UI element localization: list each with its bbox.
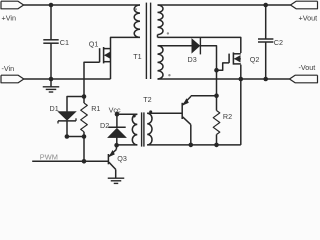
port +Vin connector tag xyxy=(1,1,24,22)
transistor Q4 PNP xyxy=(182,96,191,144)
node junction dot C1 top xyxy=(49,3,54,8)
wire D1-R1 bottom link xyxy=(67,136,84,138)
diode D1 zener xyxy=(50,104,77,123)
node junction dot C2 bottom xyxy=(263,77,268,82)
wire Q3 emitter up xyxy=(115,145,117,149)
node PWM net label xyxy=(40,153,58,162)
ground under Q3 xyxy=(108,178,125,183)
svg-text:Q3: Q3 xyxy=(117,154,127,163)
wire top-right rail (T1 secondary to +Vout) xyxy=(158,4,291,6)
wire Q1 gate lead xyxy=(84,62,100,96)
wire top-left rail (+Vin to T1 primary) xyxy=(24,4,140,6)
node junction dot R2 top xyxy=(214,93,219,98)
svg-text:+Vout: +Vout xyxy=(299,13,318,22)
wire T2 secondary bottom rail xyxy=(147,144,241,146)
svg-text:R1: R1 xyxy=(91,104,100,113)
wire left bottom rail (-Vin) xyxy=(24,78,111,80)
node junction dot Q4 collector-rail xyxy=(189,143,194,148)
port -Vin connector tag xyxy=(1,64,24,83)
wire D2 cathode to Vcc xyxy=(116,114,118,127)
transformer T2 core xyxy=(142,112,144,146)
svg-text:D3: D3 xyxy=(188,55,197,64)
wire Q2 source to -Vout rail xyxy=(240,65,242,79)
svg-text:-Vout: -Vout xyxy=(299,63,316,72)
wire Vcc to T2 primary top xyxy=(117,113,137,115)
ground under C1 xyxy=(43,79,60,92)
node junction dot Q2 gate branch xyxy=(214,68,219,73)
transformer T1 secondary-2 winding xyxy=(158,46,164,79)
wire C2 bottom lead xyxy=(265,42,267,79)
svg-text:Q1: Q1 xyxy=(89,39,99,48)
node junction dot Q1 gate node xyxy=(82,94,87,99)
node T1 primary phase dot xyxy=(135,8,137,10)
node T2 secondary phase dot xyxy=(149,110,152,113)
port -Vout connector tag xyxy=(290,63,318,83)
node junction dot Q2 source xyxy=(239,77,244,82)
wire T2 primary bottom to Q3 node xyxy=(117,144,138,146)
wire C1 top lead xyxy=(50,5,52,40)
wire D2 anode lead xyxy=(116,138,118,146)
transformer T2 secondary winding xyxy=(147,113,152,145)
wire D1 cathode lead xyxy=(66,121,68,137)
svg-text:Vcc: Vcc xyxy=(109,105,121,114)
node junction dot C1 bottom xyxy=(49,77,54,82)
node junction dot Q3-D2-T2 xyxy=(114,143,119,148)
transformer T1 core xyxy=(146,3,150,79)
svg-text:T2: T2 xyxy=(143,95,151,104)
svg-text:+Vin: +Vin xyxy=(2,13,16,22)
transformer T2 label xyxy=(143,95,151,104)
wire T1 sec-1 bottom to Q2 drain xyxy=(158,37,241,53)
svg-text:T1: T1 xyxy=(133,52,141,61)
transformer T1 primary winding xyxy=(134,5,140,37)
wire right bottom rail (-Vout) xyxy=(158,78,290,80)
wire Q4 emitter to gate-drive node xyxy=(191,95,217,98)
wire T1 sec-2 top to D3 anode xyxy=(158,45,192,47)
svg-text:R2: R2 xyxy=(223,112,232,121)
port +Vout connector tag xyxy=(291,1,318,22)
capacitor C1 xyxy=(43,38,69,47)
svg-text:PWM: PWM xyxy=(40,153,58,162)
wire T2 secondary top to Q4 base xyxy=(147,112,182,114)
transistor Q2 N-MOSFET xyxy=(229,52,259,64)
node junction dot R1 bottom xyxy=(82,134,87,139)
diode D2 xyxy=(100,121,126,138)
node T2 primary phase dot xyxy=(133,115,136,118)
node junction dot R2 bottom xyxy=(214,143,219,148)
wire gate node to D1 xyxy=(67,97,84,112)
node T1 secondary-1 phase dot xyxy=(167,32,169,34)
node T1 secondary-2 phase dot xyxy=(168,74,170,76)
wire Q2 gate lead xyxy=(217,63,230,70)
svg-text:C1: C1 xyxy=(60,38,69,47)
diode D3 xyxy=(188,38,201,65)
wire C2 top lead xyxy=(265,5,267,39)
node junction dot D1 bottom xyxy=(65,134,70,139)
transistor Q3 PNP xyxy=(108,149,126,178)
transformer T2 primary winding xyxy=(132,114,137,145)
resistor R1 xyxy=(81,97,101,137)
wire PWM line xyxy=(32,160,108,162)
wire C1 bottom lead xyxy=(50,43,52,79)
wire R1 bottom to PWM line xyxy=(83,137,85,162)
svg-text:C2: C2 xyxy=(274,38,283,47)
svg-text:-Vin: -Vin xyxy=(2,64,15,73)
svg-text:D1: D1 xyxy=(50,104,59,113)
svg-text:Q2: Q2 xyxy=(250,55,260,64)
capacitor C2 xyxy=(258,38,283,47)
node Vcc power dot xyxy=(109,105,121,116)
wire T1 primary bottom to Q1 drain xyxy=(111,37,140,79)
wire D3 cathode to gate node xyxy=(200,46,216,96)
resistor R2 xyxy=(213,96,232,145)
node junction dot C2 top xyxy=(263,3,268,8)
node junction dot PWM-R1 xyxy=(82,159,87,164)
transformer T1 secondary-1 winding xyxy=(158,5,164,37)
transistor Q1 N-MOSFET xyxy=(89,39,111,63)
wire Q2 source down to lower rail xyxy=(240,79,242,145)
transformer T1 label xyxy=(133,52,141,61)
svg-text:D2: D2 xyxy=(100,121,109,130)
